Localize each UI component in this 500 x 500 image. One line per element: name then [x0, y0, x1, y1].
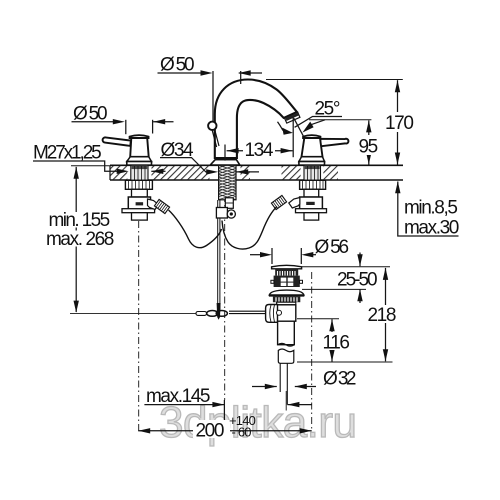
chain links — [207, 311, 218, 317]
hose fitting (to the right, angled) — [148, 199, 159, 210]
valve body — [128, 197, 150, 211]
horizontal lever rod to waste — [229, 311, 266, 313]
218 dimension — [385, 268, 387, 361]
left dia50 dimension — [72, 121, 114, 123]
base band — [299, 162, 325, 166]
body — [277, 305, 296, 321]
break squiggle bottom of tailpipe — [278, 343, 295, 346]
countertop deck cross-section — [110, 165, 403, 180]
flexible hose — [222, 207, 277, 250]
svg-text:Ø 56: Ø 56 — [315, 237, 349, 258]
holes block — [274, 276, 300, 287]
clamp nut — [300, 180, 326, 189]
svg-text:max.145: max.145 — [146, 386, 210, 407]
svg-text:min.8,5: min.8,5 — [404, 198, 457, 219]
rod clamp — [216, 208, 227, 219]
max145 dimension — [144, 404, 224, 406]
170 dimension — [266, 79, 403, 81]
95 dimension — [309, 119, 371, 121]
plug cap — [272, 265, 302, 268]
M27 leader — [33, 161, 120, 171]
clamp nut — [125, 180, 152, 189]
threaded shank below deck — [219, 163, 236, 200]
svg-text:max.30: max.30 — [404, 218, 459, 239]
deck left edge — [109, 165, 111, 180]
top dia50 dimension — [158, 72, 201, 74]
text halos — [42, 112, 412, 438]
lever rod — [320, 139, 348, 147]
deck hatched slabs — [110, 166, 127, 179]
rosette dome — [269, 290, 304, 295]
min8.5/max30 dimension — [398, 182, 459, 237]
shank through deck — [131, 165, 148, 180]
svg-text:M27x1,25: M27x1,25 — [33, 143, 101, 164]
bottom flange bar — [296, 209, 327, 213]
svg-text:218: 218 — [368, 305, 396, 326]
flexible hose — [169, 210, 222, 248]
side stud — [225, 198, 233, 209]
neck — [277, 302, 296, 305]
ribbed hose end — [154, 199, 169, 213]
knurled collar — [275, 269, 298, 276]
svg-text:95: 95 — [359, 137, 378, 158]
bottom flange bar — [122, 209, 155, 213]
svg-text:Ø 50: Ø 50 — [160, 55, 194, 76]
body cone — [302, 138, 323, 157]
deck top line — [110, 164, 403, 166]
hose fitting (to the left, angled) — [289, 198, 300, 209]
dia34 leader — [160, 158, 208, 172]
25-50 dimension — [359, 253, 361, 304]
svg-text:- 60: - 60 — [232, 425, 252, 440]
cap — [130, 135, 149, 138]
base flare — [299, 157, 325, 162]
rod dark tip — [217, 303, 221, 320]
rod end capsule — [196, 312, 207, 316]
centerline — [311, 272, 313, 430]
body cone — [130, 138, 149, 157]
ribbed ring — [273, 297, 300, 303]
ball housing — [266, 305, 278, 323]
25deg wedge arrows — [302, 122, 313, 133]
dia32 dimension — [252, 386, 277, 388]
pop-up knob stem — [212, 130, 219, 147]
lower block — [132, 213, 148, 220]
pop-up vertical rod — [218, 200, 220, 311]
tailpipe — [278, 321, 295, 345]
neck — [304, 189, 319, 197]
valve body — [300, 197, 323, 211]
svg-text:25°: 25° — [315, 99, 340, 120]
side pins — [271, 280, 274, 283]
cap — [303, 135, 321, 138]
svg-text:Ø34: Ø34 — [161, 140, 195, 161]
dia56 dimension — [250, 254, 261, 256]
116 dimension — [331, 319, 333, 361]
ribbed hose end — [271, 195, 286, 209]
stub segment — [278, 349, 294, 363]
25deg leader — [295, 117, 342, 128]
neck — [132, 189, 148, 197]
min155 dimension — [71, 165, 110, 167]
spout base — [210, 160, 240, 165]
svg-text:Ø 50: Ø 50 — [73, 104, 107, 125]
svg-text:170: 170 — [385, 113, 413, 134]
lower block — [304, 213, 319, 220]
pop-up knob — [208, 122, 216, 130]
svg-text:134: 134 — [245, 140, 274, 161]
svg-text:116: 116 — [323, 333, 350, 354]
svg-text:200: 200 — [196, 421, 224, 442]
dimension texts — [33, 55, 459, 442]
arrowheads — [74, 70, 401, 433]
spout tube — [215, 80, 297, 159]
svg-text:25-50: 25-50 — [337, 270, 377, 291]
svg-text:Ø 32: Ø 32 — [323, 369, 356, 390]
base band — [127, 162, 152, 166]
deck bottom line — [110, 179, 403, 181]
centerline — [138, 221, 140, 433]
lever rod — [103, 137, 131, 146]
svg-text:max. 268: max. 268 — [46, 229, 114, 250]
aerator — [284, 112, 299, 123]
shank — [304, 165, 321, 180]
200 dimension — [138, 430, 312, 432]
134 dimension — [227, 150, 293, 152]
spout centerline — [224, 166, 226, 400]
narrow drain pipe — [280, 363, 287, 404]
base flare — [127, 157, 152, 162]
pipe centerline — [285, 391, 287, 411]
